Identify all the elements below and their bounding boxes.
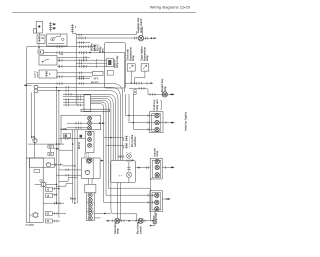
wire after bulb bbox=[144, 37, 157, 40]
junction dots rails bbox=[56, 87, 57, 88]
chain box lower bbox=[86, 131, 95, 152]
wire row y63.2 into module bbox=[76, 59, 107, 68]
connector strip box bbox=[81, 109, 110, 111]
label cluster C1 bbox=[153, 99, 161, 110]
cigar unit label bbox=[141, 46, 150, 61]
wire ladder B to bus bbox=[73, 32, 77, 34]
wire row y213.4 left bbox=[52, 212, 66, 215]
C2 exit wire bbox=[162, 166, 175, 169]
C1 bulb 2 bbox=[155, 120, 159, 124]
wire y83.2 with ticks bbox=[125, 82, 154, 85]
wire connector down bbox=[34, 143, 36, 144]
label above top bulb bbox=[137, 17, 143, 33]
svg-text:lamp unit: lamp unit bbox=[156, 99, 159, 110]
connector text block bbox=[90, 43, 99, 51]
column bulb 1 bbox=[88, 193, 92, 197]
svg-text:lamp: lamp bbox=[132, 55, 135, 61]
C3 bulb 2 bbox=[155, 200, 159, 204]
wire row y66.3 bbox=[57, 65, 107, 68]
chain bulb 4 bbox=[88, 132, 92, 136]
svg-text:lamp relay: lamp relay bbox=[116, 55, 119, 68]
instrument connector box bbox=[81, 158, 100, 178]
connector terminal y46.7 bbox=[94, 45, 96, 50]
dimmer exit wire bbox=[92, 122, 105, 124]
switch labels bbox=[131, 134, 137, 147]
cluster C1 box bbox=[150, 112, 164, 133]
connector pair under R1 bbox=[134, 89, 137, 95]
junction dot rail 2 bbox=[58, 90, 59, 91]
cluster C1 wires bbox=[126, 114, 155, 131]
svg-text:864 2: 864 2 bbox=[119, 156, 125, 159]
connector circle a bbox=[86, 159, 92, 163]
wire row y221 left bbox=[52, 220, 60, 223]
label above courtesy bulb bbox=[161, 78, 167, 92]
C2 bulb 2 bbox=[155, 165, 159, 169]
wire bundle corner 5 bbox=[91, 96, 114, 160]
twin wire left arrow bbox=[106, 220, 109, 222]
column bulb 6 bbox=[88, 216, 92, 220]
svg-text:+ +: + + bbox=[119, 175, 123, 178]
wire row y203 with ticks bbox=[43, 202, 64, 205]
wire stub y57.5 bbox=[57, 56, 90, 59]
left feed vertical bbox=[26, 47, 28, 158]
near-bus ticks row y76.8 bbox=[80, 76, 84, 79]
B2 bottom drop 1 bbox=[116, 183, 118, 219]
fuse box row2 bbox=[46, 194, 53, 198]
svg-text:lamp: lamp bbox=[146, 55, 149, 61]
connector ladder A bbox=[49, 22, 52, 32]
C3 bottom wire bbox=[150, 212, 155, 227]
wire row y60.2 bbox=[57, 59, 107, 62]
svg-text:lamp: lamp bbox=[164, 86, 167, 92]
cluster C2 label bbox=[153, 148, 159, 157]
wire row y138.7 bbox=[59, 137, 86, 140]
step wire a bbox=[59, 178, 77, 182]
wire row y94.3 bundle4 bbox=[63, 93, 116, 161]
near-bus stub column vertical bbox=[75, 33, 77, 105]
module label right bbox=[113, 55, 119, 68]
fuse box row3 bbox=[46, 212, 53, 216]
arrow wire y148.8 bbox=[54, 148, 60, 150]
ignition switch S1 bbox=[34, 22, 43, 34]
B2 bottom stub bbox=[128, 178, 130, 183]
svg-text:lamp: lamp bbox=[117, 228, 120, 234]
double connector on left rail bbox=[33, 85, 39, 92]
courtesy lamp wire y37.3 bbox=[76, 37, 138, 40]
wire row y105 into bar bbox=[63, 104, 84, 107]
wire conn3 bbox=[30, 214, 33, 216]
svg-text:Ignition: Ignition bbox=[33, 70, 36, 78]
inner rail in box bbox=[29, 158, 31, 222]
C3 exit wire bbox=[163, 198, 171, 200]
near-bus ticks row y60 bbox=[80, 59, 84, 62]
chain bulb 6 bbox=[88, 143, 92, 147]
cluster C1 feed verticals bbox=[126, 94, 134, 129]
left rail vertical 1 bbox=[31, 92, 33, 138]
wire bundle corner 8 bbox=[91, 102, 107, 195]
C1 bulb 3 bbox=[155, 127, 159, 131]
dimmer feed vertical bbox=[60, 130, 62, 144]
svg-text:lamp rear: lamp rear bbox=[155, 213, 158, 224]
fuse label box 1 bbox=[48, 145, 54, 149]
module R1 rounded box bbox=[104, 43, 125, 89]
C3 bulb 3 bbox=[155, 207, 159, 211]
wire row y144.1 bbox=[28, 143, 64, 144]
small box in module bbox=[107, 70, 113, 75]
chain bulb 5 bbox=[88, 138, 92, 142]
wire stub y72.8 bbox=[57, 72, 93, 75]
svg-text:H31855: H31855 bbox=[26, 224, 35, 227]
clock unit label bbox=[127, 47, 136, 62]
wire bundle corner 6 bbox=[91, 98, 137, 220]
C2 to twin wire vertical bbox=[151, 179, 153, 221]
wire row y102.2 into bar bbox=[63, 101, 84, 104]
extra ticks rows bbox=[84, 45, 91, 67]
wire row y90.6 bundle3 bbox=[38, 89, 118, 160]
dimmer wire y127.8 bbox=[67, 127, 88, 130]
wire row y188.6 bbox=[52, 187, 59, 190]
svg-text:864 215: 864 215 bbox=[91, 81, 99, 84]
near-bus ticks row y83.5 bbox=[80, 82, 84, 85]
dimmer wide box bbox=[61, 115, 101, 130]
fuse box row4 bbox=[46, 219, 53, 223]
wire y150.2 bbox=[59, 149, 73, 151]
vertical x124.6 bbox=[124, 53, 126, 93]
clock unit box bbox=[127, 64, 135, 71]
switch feed wire 1 bbox=[104, 137, 124, 139]
wire row y96.6 into bar bbox=[63, 95, 84, 98]
left rail vertical 2 bbox=[34, 92, 36, 158]
twin bulb wire bbox=[106, 220, 155, 223]
fuse label box 2 bbox=[48, 152, 54, 156]
column bulb 2 bbox=[88, 198, 92, 202]
C2 bulb 1 bbox=[155, 159, 159, 163]
svg-text:switch: switch bbox=[36, 71, 39, 78]
svg-text:Panel: Panel bbox=[70, 199, 76, 201]
svg-text:Wiring diagrams 12•29: Wiring diagrams 12•29 bbox=[150, 5, 191, 10]
svg-text:lamp: lamp bbox=[156, 150, 159, 156]
B2 top ticks bbox=[127, 160, 131, 163]
column stub y217.9 bbox=[94, 217, 100, 219]
wire conn2 left bbox=[35, 183, 42, 185]
lamp module wide box bbox=[30, 158, 55, 167]
header rule bbox=[12, 12, 196, 14]
glovebox bulb bbox=[127, 152, 132, 158]
wide short box MFA bbox=[93, 71, 104, 75]
switch box A bbox=[39, 56, 57, 65]
mid rail vertical 2 bbox=[58, 91, 60, 218]
fuse link vertical bbox=[50, 148, 52, 152]
svg-text:861 54: 861 54 bbox=[78, 141, 81, 149]
chain bulb 1 bbox=[88, 116, 92, 120]
wire y88.4 ticks right bbox=[129, 87, 146, 90]
near-bus ticks row y53 bbox=[80, 51, 84, 54]
corner to courtesy wire bbox=[146, 88, 148, 94]
wire row y53.3 bbox=[44, 51, 125, 54]
twin bulb 1 label bbox=[114, 222, 120, 234]
wire conn2 right bbox=[46, 184, 57, 185]
left feed rows to conn box 1 bbox=[59, 169, 82, 172]
wire row y194.8 bbox=[52, 194, 57, 197]
lower hwire 1 bbox=[108, 188, 151, 191]
lower hwire 2 bbox=[106, 194, 155, 197]
triple verticals from dimmer bbox=[72, 130, 77, 204]
cigar drop wire bbox=[135, 71, 145, 83]
twin bulb 1 bbox=[115, 218, 120, 223]
wire stub y42.6 bbox=[76, 41, 90, 44]
wire row y46.7 bbox=[27, 45, 95, 48]
connector ladder B bbox=[71, 24, 77, 34]
wire with left arrow bbox=[24, 84, 32, 86]
connector circle b bbox=[84, 170, 90, 174]
column bulb 5 bbox=[88, 212, 92, 216]
svg-text:switch: switch bbox=[140, 226, 143, 234]
map light connector bbox=[40, 181, 48, 187]
wire bundle corner 9 bbox=[91, 104, 104, 203]
boot light connector bbox=[32, 213, 39, 218]
twin bulb 2 bbox=[138, 218, 143, 223]
column bulb 3 bbox=[88, 203, 92, 207]
B2 exit wire bbox=[136, 166, 151, 169]
B2 inner ticks bbox=[127, 162, 130, 172]
svg-text:lamp switch: lamp switch bbox=[140, 18, 143, 33]
svg-text:switches: switches bbox=[134, 136, 137, 147]
courtesy wire y94.4 bbox=[148, 93, 174, 96]
switch linkage dashes bbox=[129, 137, 131, 149]
B2 inner bulb bbox=[126, 172, 131, 177]
relay in module bbox=[107, 58, 114, 66]
switch feed wire 2 bbox=[106, 144, 123, 146]
wire y165.9 bbox=[63, 165, 76, 166]
fuse box F1 bbox=[37, 35, 45, 44]
door switch 1 bbox=[123, 136, 127, 142]
dimmer wire y123.2 bbox=[67, 122, 88, 125]
wire ignition to fuse bbox=[39, 33, 41, 35]
clock unit drop wire bbox=[130, 71, 132, 83]
svg-text:MFA: MFA bbox=[94, 78, 99, 81]
switch feed dots bbox=[110, 137, 111, 138]
column bulb 4 bbox=[88, 207, 92, 211]
pilot box bbox=[38, 50, 44, 54]
bulb column outer box bbox=[85, 184, 96, 220]
svg-text:Interior lights: Interior lights bbox=[184, 112, 188, 131]
svg-text:C10: C10 bbox=[40, 181, 45, 183]
wire row y99.4 into bar bbox=[63, 98, 84, 101]
C3 bulb 1 bbox=[155, 193, 159, 197]
near-bus ticks row y67 bbox=[80, 65, 84, 68]
connector tag square bbox=[80, 135, 83, 138]
label left of R1 bbox=[99, 46, 105, 53]
interior light switch connector bbox=[31, 136, 38, 143]
svg-text:B14: B14 bbox=[31, 136, 36, 139]
connector bar box bbox=[84, 95, 91, 112]
page background bbox=[0, 0, 200, 257]
left feed rows to conn box 2 bbox=[56, 174, 81, 177]
cluster C3 box bbox=[150, 191, 163, 212]
courtesy lamp bulb top bbox=[138, 27, 143, 41]
svg-text:unit: unit bbox=[102, 48, 105, 53]
fuse tag under wide box bbox=[34, 170, 40, 173]
courtesy bulb y94.4 bbox=[162, 92, 175, 97]
cluster C3 label below bbox=[152, 213, 158, 224]
door switch 2 bbox=[123, 143, 127, 149]
mini ticks left y129 bbox=[60, 128, 67, 130]
C1 bulb 1 bbox=[155, 113, 159, 117]
upper wire y34.3 bbox=[76, 31, 136, 34]
wire row y83.5 bundle1 bbox=[27, 82, 123, 160]
C1 exit wire bbox=[159, 121, 175, 124]
mid rail vertical 1 bbox=[55, 87, 57, 203]
lighting switch box bbox=[47, 34, 68, 46]
cluster C2 box bbox=[150, 158, 162, 179]
cigar unit box bbox=[141, 64, 149, 71]
B2 bottom drop 2 bbox=[120, 183, 122, 221]
heater illum box a bbox=[63, 134, 70, 138]
fuse box row1 bbox=[46, 187, 53, 191]
tall left bottom box bbox=[26, 158, 43, 222]
chain bulb 3 bbox=[88, 126, 92, 130]
left vertical text bbox=[33, 70, 39, 78]
wire from wide box right bbox=[51, 164, 63, 167]
glovebox dot bbox=[132, 160, 133, 161]
step wire b bbox=[56, 184, 72, 187]
twin bulb 2 label bbox=[137, 221, 143, 234]
lower hwire 3 bbox=[104, 201, 155, 204]
column feed wires bbox=[89, 178, 92, 184]
chain label bbox=[84, 154, 90, 159]
chain bulb 2 bbox=[88, 121, 92, 125]
column exit wire bbox=[94, 213, 111, 215]
chain bottom bulb bbox=[87, 158, 92, 163]
arrow below fuse box bbox=[38, 44, 40, 50]
conn box exit wire bbox=[100, 160, 104, 162]
wire row y76.8 bbox=[57, 75, 92, 78]
fuse box B2 bbox=[39, 70, 57, 78]
wire bundle corner 7 bbox=[91, 100, 109, 188]
instrument box B2 bbox=[111, 161, 136, 183]
wire row y87.3 bundle2 bbox=[38, 86, 121, 161]
wire stub y78.6 bbox=[76, 77, 90, 80]
C2 bulb 3 bbox=[155, 173, 159, 177]
